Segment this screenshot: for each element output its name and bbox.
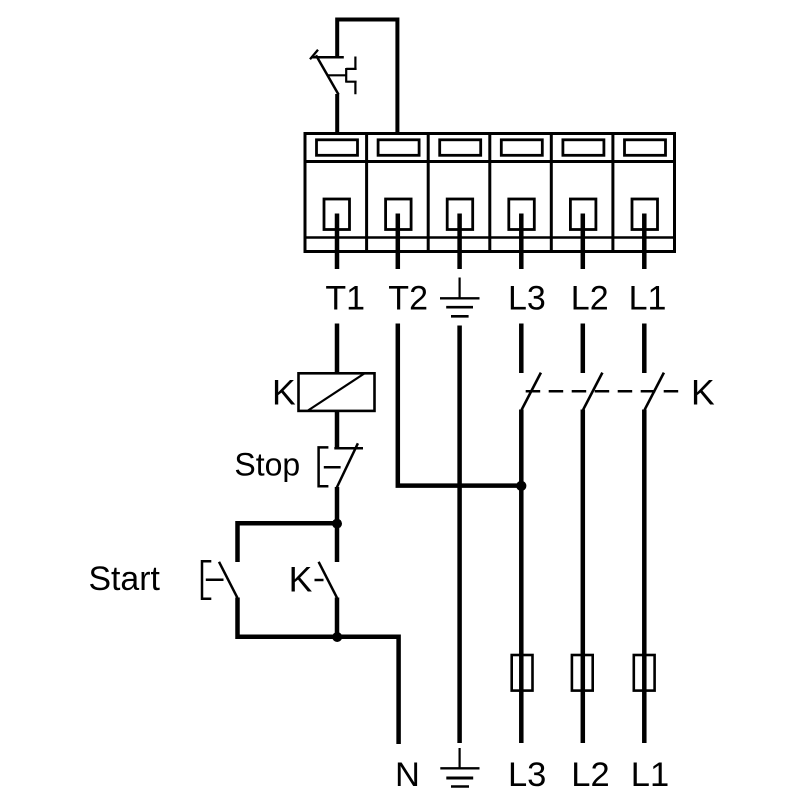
ground symbol upper bar 3 (451, 315, 469, 318)
svg-text:L2: L2 (571, 756, 609, 794)
svg-text:L2: L2 (571, 280, 609, 318)
wire L2 upper (581, 324, 586, 374)
contactor coil diagonal (308, 374, 364, 411)
terminal block bottom strip line (305, 236, 675, 239)
terminal 4 clamp square (509, 199, 535, 230)
start contact moving arm (219, 562, 237, 598)
terminal 5 lead wire (581, 214, 586, 270)
svg-text:L1: L1 (631, 756, 669, 794)
ground symbol lower bar 3 (451, 785, 469, 787)
svg-text:N: N (395, 756, 420, 794)
terminal block divider 5 (611, 134, 614, 252)
wire junction to start branch (238, 523, 338, 562)
K main contact L2 arm (583, 373, 602, 410)
thermal element connector (327, 74, 346, 76)
wire L2 lower (581, 410, 586, 744)
thermal overload contact fixed bar (311, 56, 344, 59)
fuse F2 on L2 (572, 655, 593, 691)
svg-text:T2: T2 (388, 280, 428, 318)
terminal 3 top slot (440, 140, 481, 156)
thermal element stepped actuator (346, 57, 356, 95)
terminal 2 lead wire (396, 214, 401, 270)
terminal 1 lead wire (335, 214, 340, 270)
svg-text:L3: L3 (508, 756, 546, 794)
terminal block divider 4 (550, 134, 553, 252)
wire junction to K auxiliary contact (335, 523, 340, 562)
junction node stop/start (332, 519, 342, 529)
wire T1 down to contactor coil (335, 324, 340, 374)
K auxiliary contact moving arm (319, 562, 337, 598)
ground symbol upper bar 2 (446, 306, 473, 309)
terminal 6 top slot (625, 140, 666, 156)
start pushbutton link dash (206, 579, 224, 582)
svg-text:K: K (289, 559, 313, 599)
wire ground line down (457, 326, 462, 744)
stop pushbutton bracket (319, 447, 329, 486)
contactor coil K box (299, 373, 375, 411)
wire from overload contact down to terminal 1 (335, 94, 339, 134)
terminal 4 lead wire (519, 214, 524, 270)
svg-text:L1: L1 (629, 280, 667, 318)
junction node bottom rail (332, 632, 342, 642)
stop contact moving arm (337, 443, 358, 487)
wire stop contact to junction (335, 487, 340, 523)
svg-text:Start: Start (89, 560, 161, 598)
terminal block divider 3 (488, 134, 491, 252)
terminal 6 clamp square (632, 199, 658, 230)
svg-text:Stop: Stop (234, 447, 300, 483)
ground symbol lower bar 1 (440, 767, 479, 769)
terminal 5 clamp square (570, 199, 596, 230)
wire L3 lower (519, 410, 524, 744)
K main contact L1 arm (645, 373, 664, 410)
ground symbol lower stub (459, 748, 461, 768)
ground symbol upper bar 1 (440, 297, 480, 299)
terminal 6 lead wire (642, 214, 647, 270)
ground symbol lower bar 2 (446, 777, 473, 780)
K auxiliary link dash (315, 579, 324, 582)
thermal overload contact end slash (310, 50, 318, 60)
ground symbol upper stub (459, 278, 461, 299)
terminal 5 top slot (563, 140, 604, 156)
terminal 3 lead wire (457, 214, 462, 270)
wire K auxiliary contact to bottom rail (335, 598, 340, 639)
junction node T2 to L3 (516, 481, 526, 491)
start pushbutton bracket (202, 561, 211, 598)
terminal block divider 1 (365, 134, 368, 252)
terminal 2 top slot (378, 140, 419, 156)
wire T2 down and across to L3 (398, 324, 522, 486)
terminal block outline (305, 134, 675, 252)
stop contact fixed tick (334, 447, 363, 450)
svg-text:L3: L3 (508, 280, 546, 318)
terminal block top strip line (305, 160, 675, 163)
wire L3 upper (519, 324, 524, 374)
thermal overload contact moving arm (316, 55, 339, 94)
wire top loop from T1 terminal to T2 terminal (337, 20, 397, 134)
wire start contact to bottom rail and N (238, 598, 399, 745)
fuse F3 on L3 (512, 655, 533, 691)
terminal 2 clamp square (386, 199, 412, 230)
stop pushbutton link dash (324, 466, 341, 469)
svg-text:K: K (272, 372, 296, 412)
svg-text:K: K (691, 373, 715, 413)
wire L1 lower (642, 410, 647, 744)
terminal 1 clamp square (324, 199, 350, 230)
K main contact L3 arm (522, 373, 541, 410)
K main contacts dashed link (526, 390, 679, 393)
svg-text:T1: T1 (325, 280, 365, 318)
fuse F1 on L1 (634, 655, 655, 691)
wire L1 upper (642, 324, 647, 374)
terminal block divider 2 (427, 134, 430, 252)
terminal 4 top slot (501, 140, 542, 156)
terminal 1 top slot (317, 140, 358, 156)
wire coil to stop contact (335, 411, 340, 449)
terminal 3 clamp square (447, 199, 473, 230)
